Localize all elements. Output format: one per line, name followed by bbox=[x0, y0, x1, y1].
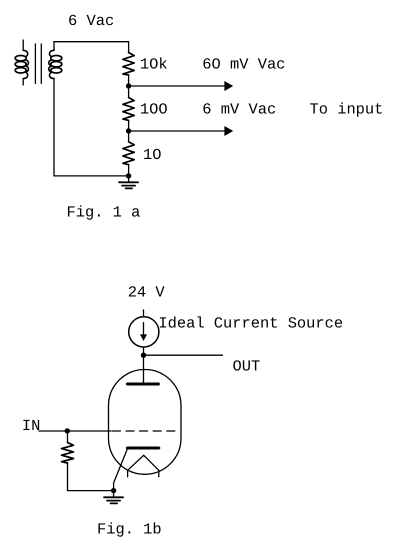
svg-text:6 Vac: 6 Vac bbox=[68, 12, 114, 30]
svg-text:Fig. 1 a: Fig. 1 a bbox=[67, 203, 141, 221]
svg-text:IN: IN bbox=[22, 417, 40, 435]
svg-text:1Ok: 1Ok bbox=[140, 56, 168, 74]
svg-text:24 V: 24 V bbox=[128, 284, 166, 302]
svg-text:1OO: 1OO bbox=[140, 101, 168, 119]
svg-text:Ideal Current Source: Ideal Current Source bbox=[158, 315, 343, 333]
svg-text:Fig. 1b: Fig. 1b bbox=[97, 521, 162, 539]
svg-text:OUT: OUT bbox=[233, 358, 261, 376]
svg-text:6O mV Vac: 6O mV Vac bbox=[202, 56, 285, 74]
svg-text:6 mV Vac: 6 mV Vac bbox=[202, 101, 276, 119]
svg-text:To input: To input bbox=[310, 101, 384, 119]
svg-text:1O: 1O bbox=[143, 146, 161, 164]
